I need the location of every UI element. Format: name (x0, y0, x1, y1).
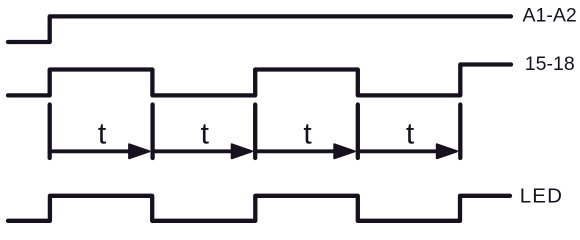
svg-text:15-18: 15-18 (525, 53, 575, 75)
svg-text:A1-A2: A1-A2 (523, 4, 577, 26)
svg-text:t: t (303, 117, 312, 150)
svg-text:t: t (98, 117, 107, 150)
svg-text:t: t (201, 117, 210, 150)
svg-text:t: t (406, 117, 415, 150)
svg-text:LED: LED (520, 185, 563, 208)
